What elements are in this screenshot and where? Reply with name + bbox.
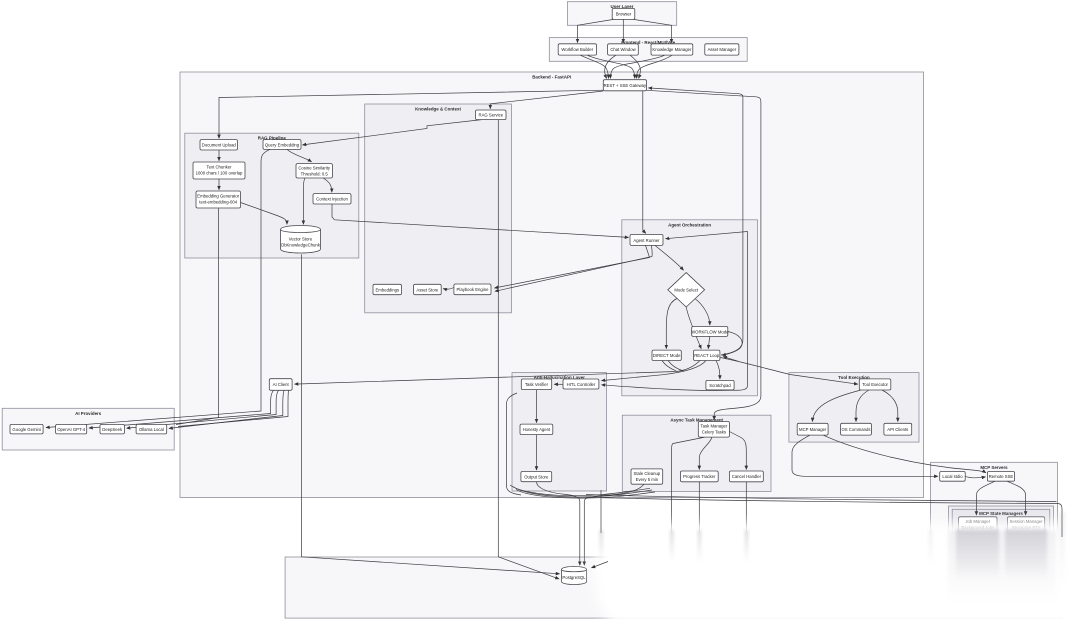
node Knowledge Manager	[651, 44, 693, 55]
fog streak stub 671	[670, 530, 673, 562]
svg-text:DIRECT Mode: DIRECT Mode	[653, 353, 681, 358]
wire Local stdio to Remote SSE	[965, 476, 985, 477]
node Cancel Handler	[729, 471, 763, 482]
node Google Gemini	[10, 424, 43, 434]
svg-text:Document Upload: Document Upload	[202, 143, 237, 148]
svg-text:Task Manager: Task Manager	[701, 424, 728, 429]
subgraph MCP State Managers	[952, 509, 1050, 587]
wire REACT Loop to Scratchpad	[716, 361, 720, 380]
node Embeddings	[373, 284, 402, 294]
fog streak stub 601	[600, 530, 603, 562]
node Cosine Similarity	[296, 164, 332, 178]
node Query Embedding	[263, 140, 301, 150]
wire Cosine Similarity to Context Injection	[323, 178, 332, 192]
wire Task Verifier to Honesty Agent	[536, 390, 538, 423]
wire Gateway to Task Manager	[647, 90, 761, 420]
node WORKFLOW Mode	[691, 327, 729, 337]
svg-text:Knowledge Manager: Knowledge Manager	[652, 47, 692, 52]
wire antihall stub	[600, 490, 602, 533]
fog streak right edge	[1059, 512, 1065, 587]
wire Task Verifier to bowl left vertical	[507, 393, 522, 495]
node HITL Controller	[563, 379, 599, 389]
wire Gateway to Agent Runner	[643, 91, 646, 234]
wire Tool Executor return to REACT Loop	[723, 357, 738, 362]
fog streak under Job Manager	[956, 529, 999, 581]
wire Browser to Chat Window	[622, 19, 624, 42]
wire Workflow Builder to Gateway left	[580, 55, 609, 78]
subgraph Async Task Management	[622, 415, 771, 491]
svg-text:Cancel Handler: Cancel Handler	[732, 474, 762, 479]
wire Text Chunker to Embedding Generator	[218, 179, 220, 190]
wire Mode Select to DIRECT Mode	[666, 299, 677, 349]
wire WORKFLOW right curve to REACT	[722, 332, 742, 356]
wire Cosine Similarity to Vector Store	[303, 178, 305, 224]
svg-text:MCP Servers: MCP Servers	[980, 465, 1008, 470]
wire Task Manager to Cancel Handler	[729, 432, 746, 470]
wire Gateway to Document Upload	[219, 90, 603, 138]
node Vector Store cylinder	[281, 226, 321, 253]
wire WORKFLOW Mode to REACT Loop	[708, 336, 710, 348]
svg-text:MCP Manager: MCP Manager	[799, 427, 827, 432]
wire HITL vertical bottom curve	[602, 385, 748, 391]
node API Clients	[884, 423, 912, 435]
wire Browser to Knowledge Manager	[634, 19, 672, 42]
svg-text:API Clients: API Clients	[887, 427, 908, 432]
svg-text:Query Embedding: Query Embedding	[265, 142, 300, 147]
svg-text:Chat Window: Chat Window	[610, 47, 636, 52]
wire Stale Cleanup to PostgreSQL	[584, 484, 644, 565]
subgraph Knowledge &amp; Context	[365, 104, 512, 313]
wire Honesty Agent to Output Store	[536, 435, 538, 470]
subgraph AI Providers	[2, 408, 174, 450]
FOG	[586, 495, 1080, 621]
subgraph Agent Orchestration	[622, 220, 758, 396]
wire MCP Manager to Local stdio	[792, 435, 938, 476]
wire AI Client to DeepSeek	[127, 390, 279, 428]
wire Progress Tracker stub	[698, 482, 700, 533]
wire MCP Manager to Remote SSE	[823, 435, 986, 473]
node Agent Runner	[630, 235, 663, 246]
wire HITL Controller to Task Verifier	[554, 383, 563, 385]
svg-text:AI Client: AI Client	[273, 382, 290, 387]
node Playbook Engine	[454, 284, 491, 295]
svg-text:Tool Executor: Tool Executor	[862, 382, 888, 387]
wire Query Embedding to Cosine Similarity	[287, 149, 312, 161]
wire Document Upload to Text Chunker	[218, 150, 220, 161]
node DeepSeek	[100, 424, 124, 434]
svg-text:Text Chunker: Text Chunker	[206, 165, 232, 170]
node Task Verifier	[521, 379, 551, 390]
svg-text:WORKFLOW Mode: WORKFLOW Mode	[691, 329, 729, 334]
node Remote SSE	[987, 472, 1014, 482]
svg-text:Google Gemini: Google Gemini	[12, 427, 40, 432]
svg-text:OS Commands: OS Commands	[841, 427, 870, 432]
svg-text:Output Store: Output Store	[524, 474, 549, 479]
wire Browser to Workflow Builder	[578, 19, 614, 42]
node Asset Manager	[705, 44, 739, 55]
subgraph Frontend - React/MUI/Vite	[549, 38, 747, 62]
subgraph MCP Servers	[931, 462, 1058, 607]
wire Tool Executor to OS Commands	[856, 390, 869, 422]
node Local stdio	[940, 472, 966, 482]
svg-text:DeepSeek: DeepSeek	[102, 427, 123, 432]
wire Cancel Handler stub	[745, 482, 747, 533]
wire Chat Window to Gateway left	[605, 55, 616, 78]
svg-text:Every 5 min: Every 5 min	[636, 477, 659, 482]
wire Knowledge Manager to Gateway left	[610, 55, 665, 78]
svg-text:Ollama Local: Ollama Local	[139, 427, 164, 432]
svg-text:HITL Controller: HITL Controller	[567, 382, 596, 387]
wire Mode Select to WORKFLOW Mode	[696, 299, 710, 325]
wire Remote SSE to Session Manager	[1007, 481, 1026, 515]
node Browser	[612, 8, 635, 19]
wire Agent Runner to Playbook Engine a	[495, 245, 650, 288]
wire bowl extra c	[510, 485, 650, 496]
wire Knowledge Manager to Gateway right	[637, 55, 672, 78]
wire Query Embedding to AI bundle	[46, 149, 270, 427]
node AI Client	[269, 379, 292, 391]
node REST + SSE Gateway	[603, 80, 647, 91]
wire Vector Store to PostgreSQL	[302, 254, 560, 574]
wire AI Client to OpenAI	[89, 390, 274, 428]
wire Embedding Generator to Vector Store	[241, 203, 288, 225]
svg-text:Asset Store: Asset Store	[416, 287, 439, 292]
node Workflow Builder	[558, 44, 596, 55]
wire Playbook Engine to Asset Store	[443, 288, 454, 290]
subgraph User Layer	[567, 2, 676, 26]
svg-text:Celery Tasks: Celery Tasks	[702, 430, 726, 435]
wire DIRECT Mode tail b	[668, 361, 685, 372]
svg-text:Embeddings: Embeddings	[375, 287, 399, 292]
svg-text:Progress Tracker: Progress Tracker	[683, 474, 716, 479]
svg-text:Agent Orchestration: Agent Orchestration	[668, 222, 711, 227]
wire Context Injection to Agent Runner	[332, 204, 629, 237]
wire Output Store to PostgreSQL	[537, 482, 580, 566]
node OS Commands	[841, 423, 872, 435]
svg-text:OpenAI GPT-4: OpenAI GPT-4	[57, 427, 86, 432]
subgraph Tool Execution	[789, 373, 919, 443]
svg-text:AI Providers: AI Providers	[75, 411, 102, 416]
node Embedding Generator	[196, 191, 241, 208]
node REACT Loop	[694, 350, 720, 360]
node Progress Tracker	[680, 471, 718, 482]
svg-text:RAG Service: RAG Service	[479, 113, 504, 118]
svg-text:Agent Runner: Agent Runner	[633, 238, 660, 243]
svg-text:Mode Select: Mode Select	[674, 288, 698, 293]
svg-text:text-embedding-004: text-embedding-004	[199, 200, 237, 205]
node Task Manager	[698, 422, 729, 438]
subgraph Anti-Hallucination Layer	[512, 373, 607, 491]
svg-text:Browser: Browser	[616, 12, 632, 17]
subgraph RAG Pipeline	[185, 133, 359, 258]
wire fog arrow into PostgreSQL	[592, 562, 609, 568]
wire Gateway to RAG Service	[490, 91, 603, 109]
fog streak stub 699	[698, 530, 701, 562]
wire Embedding Generator down bundle	[176, 208, 219, 424]
node Job Manager	[959, 517, 997, 534]
fog main blob	[591, 522, 1080, 621]
svg-text:PostgreSQL: PostgreSQL	[562, 575, 586, 580]
node DIRECT Mode	[652, 350, 681, 360]
node Text Chunker	[193, 162, 245, 179]
subgraph MCP State Managers outer	[949, 506, 1054, 591]
wire REACT Loop to Tool Executor	[720, 358, 858, 385]
node Chat Window	[608, 44, 639, 55]
wire REACT Loop to HITL Controller	[602, 361, 707, 381]
wire Task Manager to Progress Tracker	[699, 437, 712, 469]
svg-text:DbKnowledgeChunk: DbKnowledgeChunk	[281, 243, 321, 248]
node Honesty Agent	[520, 424, 553, 435]
wire bowl extra a	[513, 487, 652, 498]
wire Mode Select to REACT Loop	[686, 307, 701, 349]
wire Tool Executor to MCP Manager	[813, 390, 862, 422]
node Document Upload	[200, 140, 238, 150]
svg-text:Stale Cleanup: Stale Cleanup	[634, 471, 661, 476]
wire HITL vertical to Agent Runner	[666, 232, 748, 387]
svg-text:Playbook Engine: Playbook Engine	[457, 287, 490, 292]
wire Task Manager left stub	[672, 437, 705, 533]
svg-text:Asset Manager: Asset Manager	[708, 47, 737, 52]
wire Agent Runner to Playbook Engine b	[495, 245, 652, 291]
subgraph Backend - FastAPI	[180, 72, 924, 498]
fog streak stub 746	[745, 530, 748, 562]
svg-text:Workflow Builder: Workflow Builder	[561, 47, 593, 52]
wire Tool Executor to API Clients	[882, 390, 898, 422]
wire bowl extra b	[516, 490, 655, 499]
svg-text:Threshold: 0.5: Threshold: 0.5	[301, 171, 329, 176]
wire REACT Loop to AI Client	[295, 361, 701, 385]
wire AI Client to providers far	[178, 390, 289, 426]
node Output Store	[521, 472, 552, 482]
wire RAG Service to PostgreSQL	[498, 120, 559, 579]
svg-text:Local stdio: Local stdio	[942, 474, 963, 479]
node Tool Executor	[859, 379, 891, 390]
wire Agent Runner to Mode Select	[655, 245, 684, 270]
wire pair to MCP a	[586, 495, 1057, 502]
svg-text:Remote SSE: Remote SSE	[989, 474, 1014, 479]
svg-text:Cosine Similarity: Cosine Similarity	[298, 165, 331, 170]
svg-text:Embedding Generator: Embedding Generator	[197, 194, 239, 199]
wire Chat Window to Gateway right	[630, 55, 640, 78]
wire Remote SSE to Job Manager	[976, 481, 995, 515]
node Mode Select diamond	[668, 273, 705, 307]
node Scratchpad	[706, 380, 734, 390]
svg-text:Task Verifier: Task Verifier	[525, 382, 549, 387]
wire REST gateway return from REACT	[648, 88, 743, 355]
svg-text:1000 chars / 100 overlap: 1000 chars / 100 overlap	[196, 171, 243, 176]
svg-text:REST + SSE Gateway: REST + SSE Gateway	[604, 83, 647, 88]
wire DIRECT Mode tail a	[662, 361, 676, 371]
svg-text:Context Injection: Context Injection	[316, 197, 348, 202]
wire Workflow Builder to Gateway right	[587, 55, 635, 78]
svg-text:Knowledge & Context: Knowledge & Context	[415, 107, 461, 112]
wire AI Client to Ollama	[169, 390, 284, 428]
fog streak under MCP state area	[948, 531, 1056, 603]
fog streak mcp left border	[929, 530, 933, 566]
subgraph Data Layer	[285, 557, 1062, 618]
wire pair to MCP b	[586, 497, 1062, 537]
node OpenAI GPT-4	[56, 424, 87, 434]
node MCP Manager	[797, 423, 828, 435]
node Context Injection	[313, 194, 351, 204]
node Asset Store	[414, 284, 442, 294]
node RAG Service	[476, 110, 507, 120]
svg-text:MCP State Managers: MCP State Managers	[979, 511, 1023, 516]
svg-text:Vector Store: Vector Store	[289, 237, 313, 242]
svg-text:Scratchpad: Scratchpad	[709, 383, 731, 388]
svg-text:REACT Loop: REACT Loop	[694, 353, 720, 358]
node Stale Cleanup	[631, 469, 663, 484]
node Ollama Local	[136, 424, 167, 434]
node Session Manager	[1008, 517, 1045, 534]
svg-text:Honesty Agent: Honesty Agent	[523, 427, 551, 432]
svg-text:Backend - FastAPI: Backend - FastAPI	[532, 75, 571, 80]
fog streak under Session Manager	[1005, 529, 1047, 581]
wire RAG Service to Query Embedding	[303, 120, 483, 145]
node PostgreSQL cylinder	[562, 567, 587, 585]
